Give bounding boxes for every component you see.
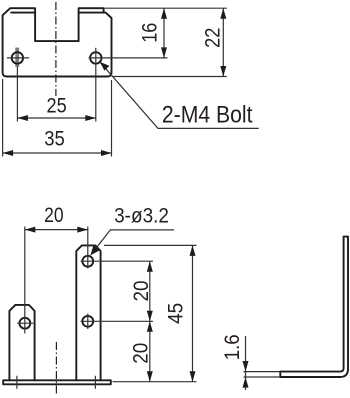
bolt hole right horizontal center line / 16-dim extension [89,57,168,59]
svg-text:20: 20 [44,204,64,227]
top hole horizontal center/extension line [81,260,153,262]
dimension 25 line [17,117,95,119]
bolt hole left (grey slot band) [15,48,19,67]
svg-text:1.6: 1.6 [221,334,244,360]
svg-text:16: 16 [139,23,162,43]
side view L-profile outer line [280,237,348,377]
1.6 dim extension line bottom [244,376,282,378]
dimension 20 lower-right line [149,321,151,381]
bolt hole left circle [12,52,23,63]
1.6 dim extension line top [244,371,282,373]
base flange rect [3,380,111,384]
dimension 20 top line [25,229,88,231]
dimension 35 line [3,152,112,154]
wall thickness inner line left tab [11,12,35,14]
35 dim left extension line [2,79,4,157]
dimension 16 line [163,8,165,58]
leader line 3-ø3.2 [91,230,174,255]
svg-text:45: 45 [165,303,188,324]
svg-text:25: 25 [47,95,67,118]
bottom extension line for 20/45 dims [113,381,197,383]
svg-text:20: 20 [130,281,153,302]
side view L-profile inner line [280,237,343,372]
svg-text:3-ø3.2: 3-ø3.2 [114,204,169,227]
dimension 20 upper-right line [149,261,151,321]
side view flange end cap [279,372,281,377]
svg-text:2-M4 Bolt: 2-M4 Bolt [162,102,253,129]
leader arrowhead 2-M4 Bolt [100,62,110,71]
dimension 1.6 line [245,336,247,390]
left tab hole horizontal center mark [17,322,33,324]
top edge extension line for 16/22 dims [105,7,227,9]
tall tab mid hole [82,316,93,327]
flange hole tick right [94,376,96,389]
tall tab outline [76,245,100,380]
svg-text:22: 22 [201,28,224,48]
bottom edge extension line for 22 dim [113,76,227,78]
leader line 2-M4 Bolt [100,62,259,128]
bolt hole right circle [90,52,101,63]
left hole centerline / 20-dim extension [24,227,26,334]
leader arrowhead 3-ø3.2 [91,245,100,255]
left tab hole [20,318,31,329]
left tab outline [9,305,34,380]
tall tab top hole [82,256,93,267]
35 dim right extension line [111,80,113,157]
bracket top-view outline [3,8,112,76]
mid hole horizontal center/extension line [81,320,153,322]
wall thickness inner line right tab [79,12,104,14]
svg-text:20: 20 [130,343,153,364]
bolt hole left horizontal center mark [7,57,29,59]
svg-text:35: 35 [44,128,65,151]
tall tab hole centerline / 20-dim extension [87,227,89,269]
dimension 45 line [192,245,194,381]
dimension 22 line [222,8,224,76]
bolt hole right vertical center line / extension [95,48,97,122]
flange hole tick left [16,376,18,389]
bolt hole left vertical extension to 25 dim [16,67,18,122]
centerline top view [55,2,57,96]
tab top extension line for 45 dim [104,244,197,246]
mid hole vertical center mark [87,314,89,330]
centerline front view [55,342,57,396]
side view wall top cap [344,236,348,238]
